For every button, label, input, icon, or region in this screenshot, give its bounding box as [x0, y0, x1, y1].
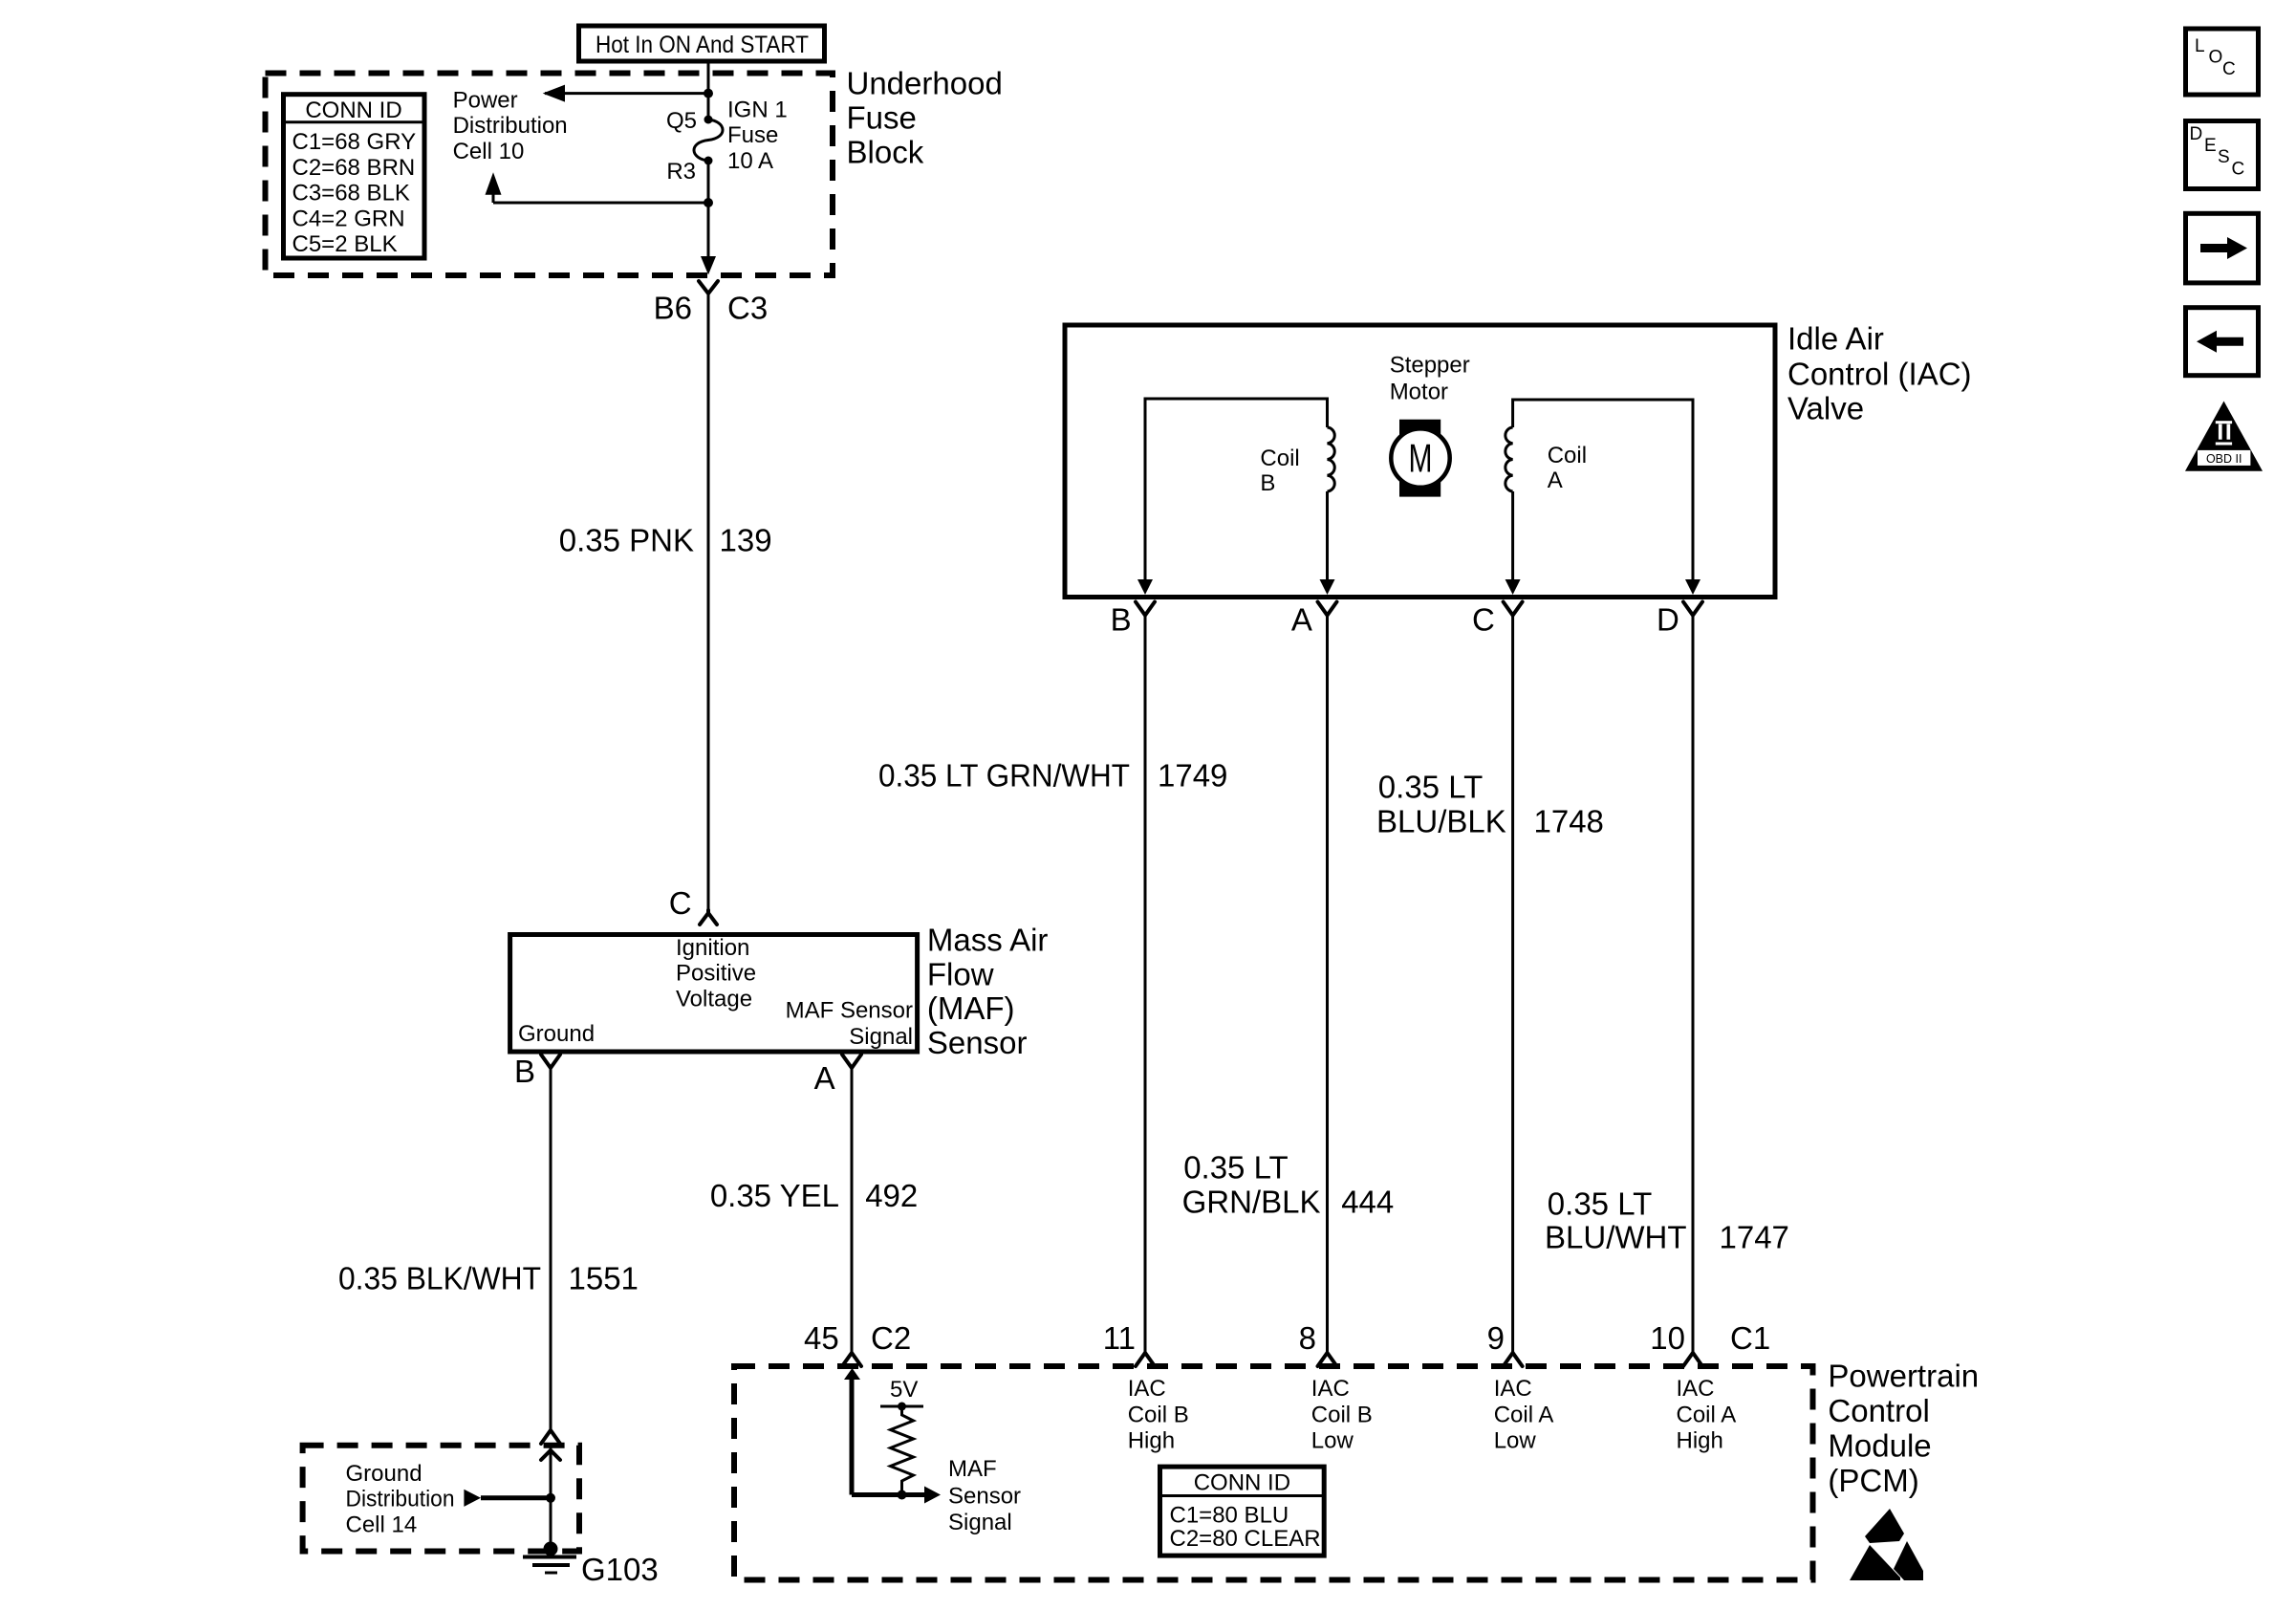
- connector pin 9 at PCM (inverted Y): [1487, 1320, 1523, 1366]
- PCM pin function labels: [1128, 1376, 1737, 1453]
- svg-text:Positive: Positive: [676, 961, 756, 987]
- wire: feed from Hot In box into fuse: [707, 59, 710, 120]
- svg-text:R3: R3: [666, 159, 696, 185]
- junction: [546, 1493, 555, 1503]
- svg-text:Powertrain: Powertrain: [1828, 1359, 1979, 1394]
- connector A at MAF (Y symbol): [814, 1055, 861, 1096]
- svg-text:A: A: [1291, 602, 1312, 638]
- label: 0.35 LT GRN/WHT 1749: [878, 758, 1227, 794]
- svg-text:IAC: IAC: [1311, 1376, 1350, 1402]
- svg-text:0.35 BLK/WHT: 0.35 BLK/WHT: [338, 1260, 541, 1295]
- label: Idle Air Control (IAC) Valve: [1787, 321, 1972, 426]
- svg-text:1551: 1551: [569, 1260, 639, 1295]
- arrowhead from ground distribution (right): [464, 1490, 481, 1507]
- svg-text:Underhood: Underhood: [847, 66, 1003, 101]
- svg-text:CONN ID: CONN ID: [1194, 1470, 1290, 1496]
- label: 0.35 LT BLU/WHT 1747: [1545, 1186, 1789, 1254]
- svg-text:C1=80 BLU: C1=80 BLU: [1170, 1502, 1289, 1528]
- svg-text:C: C: [2222, 59, 2236, 79]
- svg-text:Block: Block: [847, 135, 924, 170]
- svg-text:0.35 LT: 0.35 LT: [1183, 1150, 1288, 1186]
- svg-text:Control: Control: [1828, 1393, 1929, 1428]
- svg-text:Voltage: Voltage: [676, 986, 752, 1012]
- svg-text:1749: 1749: [1158, 758, 1227, 794]
- svg-text:0.35 LT GRN/WHT: 0.35 LT GRN/WHT: [878, 758, 1130, 794]
- label: 0.35 YEL 492: [710, 1178, 918, 1213]
- label: 0.35 BLK/WHT 1551: [338, 1260, 639, 1295]
- wire 1748 LT BLU/BLK: IAC C to PCM 9: [1511, 615, 1514, 1353]
- connector B at IAC (Y symbol): [1111, 602, 1155, 638]
- svg-text:Flow: Flow: [927, 956, 994, 991]
- Mass Air Flow (MAF) sensor box: [510, 935, 918, 1053]
- junction: [704, 198, 713, 207]
- label: MAF Sensor Signal (internal): [948, 1456, 1021, 1535]
- svg-text:IAC: IAC: [1128, 1376, 1166, 1402]
- connector C at MAF (inverted Y): [669, 885, 717, 925]
- svg-text:Ground: Ground: [518, 1021, 595, 1047]
- coil A (inductor): [1505, 400, 1693, 579]
- svg-text:Idle Air: Idle Air: [1787, 321, 1884, 357]
- svg-text:E: E: [2204, 136, 2217, 156]
- connector at ground distribution (inverted Y): [541, 1430, 560, 1444]
- wire 444 LT GRN/BLK: IAC A to PCM 8: [1326, 615, 1329, 1353]
- svg-text:0.35 LT: 0.35 LT: [1548, 1186, 1652, 1221]
- svg-text:1748: 1748: [1534, 804, 1604, 839]
- open arrow up on ground wire: [541, 1450, 560, 1460]
- svg-text:Cell 10: Cell 10: [453, 139, 525, 164]
- right-arrow icon box: [2186, 213, 2259, 283]
- svg-text:B: B: [1111, 602, 1132, 638]
- connector pin 10/C1 at PCM (inverted Y): [1650, 1320, 1770, 1366]
- Powertrain Control Module box (dashed): [734, 1366, 1813, 1580]
- svg-text:Hot In ON And START: Hot In ON And START: [596, 32, 809, 58]
- svg-text:Signal: Signal: [849, 1024, 913, 1050]
- svg-text:B6: B6: [654, 291, 692, 326]
- svg-text:444: 444: [1341, 1185, 1394, 1220]
- svg-text:1747: 1747: [1720, 1220, 1789, 1255]
- MAF signal internal wire with up arrow: [844, 1368, 924, 1495]
- connector D at IAC (Y symbol): [1657, 602, 1702, 638]
- svg-text:C2: C2: [871, 1320, 911, 1356]
- svg-text:139: 139: [720, 523, 772, 558]
- label: 0.35 LT BLU/BLK 1748: [1376, 770, 1604, 839]
- DESC icon box: [2186, 121, 2259, 189]
- svg-text:C5=2 BLK: C5=2 BLK: [292, 231, 398, 257]
- svg-text:Control (IAC): Control (IAC): [1787, 357, 1972, 392]
- svg-text:Signal: Signal: [948, 1510, 1012, 1535]
- svg-text:D: D: [1657, 602, 1679, 638]
- connector 45/C2 at PCM (inverted Y): [804, 1320, 911, 1366]
- wire inside ground box: [550, 1447, 552, 1549]
- svg-text:0.35 YEL: 0.35 YEL: [710, 1178, 839, 1213]
- svg-text:A: A: [1548, 468, 1563, 493]
- ESD sensitivity symbol: [1850, 1509, 1923, 1580]
- svg-text:MAF: MAF: [948, 1456, 997, 1482]
- svg-text:C1=68 GRY: C1=68 GRY: [292, 129, 417, 155]
- svg-text:5V: 5V: [890, 1377, 918, 1403]
- svg-text:Coil: Coil: [1548, 443, 1587, 468]
- svg-text:Distribution: Distribution: [346, 1486, 455, 1512]
- svg-text:Ignition: Ignition: [676, 935, 749, 961]
- connector C at IAC (Y symbol): [1472, 602, 1523, 638]
- svg-text:MAF Sensor: MAF Sensor: [786, 998, 913, 1024]
- svg-text:Ground: Ground: [346, 1461, 422, 1487]
- svg-text:O: O: [2209, 48, 2223, 68]
- svg-text:BLU/WHT: BLU/WHT: [1545, 1220, 1687, 1255]
- svg-text:G103: G103: [581, 1552, 659, 1587]
- svg-text:Cell 14: Cell 14: [346, 1512, 418, 1537]
- svg-text:B: B: [514, 1054, 535, 1089]
- label: Underhood Fuse Block: [847, 66, 1003, 170]
- wire 1551 BLK/WHT: MAF B to ground: [550, 1068, 552, 1430]
- svg-text:45: 45: [804, 1320, 839, 1356]
- svg-text:Sensor: Sensor: [948, 1484, 1021, 1510]
- svg-text:0.35 PNK: 0.35 PNK: [559, 523, 694, 558]
- label: Powertrain Control Module (PCM): [1828, 1359, 1979, 1498]
- junction at resistor bottom: [898, 1490, 907, 1500]
- connector pin 11 at PCM (inverted Y): [1103, 1320, 1155, 1366]
- svg-text:S: S: [2218, 147, 2230, 167]
- svg-text:Coil: Coil: [1260, 446, 1299, 471]
- svg-text:Distribution: Distribution: [453, 113, 568, 139]
- junction: [704, 89, 713, 98]
- label: 0.35 LT GRN/BLK 444: [1182, 1150, 1395, 1220]
- svg-text:C2=68 BRN: C2=68 BRN: [292, 155, 416, 181]
- svg-text:8: 8: [1299, 1320, 1316, 1356]
- coil A output arrows (down): [1505, 579, 1521, 595]
- svg-text:D: D: [2190, 124, 2203, 144]
- svg-text:Q5: Q5: [666, 108, 697, 134]
- OBD II symbol (triangle): [2185, 402, 2263, 471]
- fuse IGN 1 10A (S-curve symbol): [666, 97, 788, 185]
- svg-text:C1: C1: [1730, 1320, 1770, 1356]
- svg-text:CONN ID: CONN ID: [305, 98, 401, 123]
- svg-text:Module: Module: [1828, 1428, 1931, 1464]
- label: Power Distribution Cell 10: [453, 88, 568, 164]
- pull-up resistor: [891, 1406, 914, 1495]
- svg-text:Mass Air: Mass Air: [927, 923, 1049, 958]
- svg-text:L: L: [2195, 36, 2205, 56]
- coil B (inductor): [1145, 399, 1334, 579]
- svg-text:Fuse: Fuse: [847, 100, 917, 136]
- wire from arrow to junction: [481, 1495, 551, 1500]
- svg-text:Power: Power: [453, 88, 518, 114]
- svg-text:IGN 1: IGN 1: [727, 97, 788, 122]
- arrowhead into fuse block edge (down): [701, 256, 716, 274]
- svg-text:0.35 LT: 0.35 LT: [1378, 770, 1483, 805]
- svg-text:IAC: IAC: [1494, 1376, 1532, 1402]
- connector B at MAF (Y symbol): [514, 1054, 560, 1089]
- coil B output arrows (down): [1137, 579, 1153, 595]
- LOC icon box: [2186, 29, 2259, 95]
- svg-text:Low: Low: [1494, 1427, 1537, 1453]
- svg-text:Valve: Valve: [1787, 391, 1864, 426]
- svg-text:(MAF): (MAF): [927, 990, 1015, 1026]
- svg-text:C: C: [669, 885, 692, 921]
- svg-text:Coil B: Coil B: [1311, 1402, 1373, 1427]
- connector B6 / C3 (Y symbol): [654, 281, 769, 326]
- wire 1749 LT GRN/WHT: IAC B to PCM 11: [1144, 615, 1147, 1353]
- wire 139 PNK: B6 down to MAF C: [707, 294, 710, 910]
- label: Stepper Motor: [1390, 352, 1470, 404]
- svg-text:Stepper: Stepper: [1390, 352, 1470, 378]
- label: Ground Distribution Cell 14: [346, 1461, 455, 1537]
- power source label box "Hot In ON And START": [579, 26, 825, 61]
- svg-text:10 A: 10 A: [727, 148, 773, 174]
- svg-text:OBD II: OBD II: [2206, 452, 2242, 466]
- svg-text:Fuse: Fuse: [727, 122, 778, 148]
- Idle Air Control (IAC) valve box: [1065, 325, 1775, 598]
- CONN ID table (fuse block): [284, 95, 425, 258]
- svg-text:High: High: [1128, 1427, 1175, 1453]
- svg-text:11: 11: [1103, 1320, 1136, 1356]
- ground G103 symbol: [523, 1542, 659, 1588]
- arrowhead pointing left (to Power Distribution): [543, 85, 565, 102]
- svg-text:High: High: [1677, 1427, 1723, 1453]
- stepper motor M symbol: [1391, 420, 1449, 497]
- svg-text:GRN/BLK: GRN/BLK: [1182, 1185, 1321, 1220]
- wire: branch to power distribution (lower): [493, 202, 708, 205]
- svg-text:IAC: IAC: [1677, 1376, 1715, 1402]
- label: 0.35 PNK 139: [559, 523, 772, 558]
- svg-text:Coil A: Coil A: [1494, 1402, 1554, 1427]
- connector pin 8 at PCM (inverted Y): [1299, 1320, 1337, 1366]
- wire 1747 LT BLU/WHT: IAC D to PCM 10: [1692, 615, 1695, 1353]
- 5V supply bar: [880, 1377, 923, 1410]
- svg-text:9: 9: [1487, 1320, 1505, 1356]
- svg-text:Sensor: Sensor: [927, 1025, 1028, 1060]
- svg-text:A: A: [814, 1060, 835, 1096]
- svg-text:Motor: Motor: [1390, 379, 1448, 404]
- svg-text:(PCM): (PCM): [1828, 1463, 1918, 1498]
- svg-text:C3: C3: [727, 291, 768, 326]
- svg-text:BLU/BLK: BLU/BLK: [1376, 804, 1506, 839]
- CONN ID table (PCM): [1160, 1467, 1325, 1556]
- svg-text:492: 492: [865, 1178, 918, 1213]
- MAF internal labels: [518, 935, 913, 1050]
- svg-text:10: 10: [1650, 1320, 1685, 1356]
- left-arrow icon box: [2186, 308, 2259, 376]
- underhood fuse block box (dashed): [266, 74, 834, 276]
- wire: branch to power distribution (upper): [545, 92, 708, 95]
- svg-text:B: B: [1260, 470, 1275, 496]
- svg-text:Coil B: Coil B: [1128, 1402, 1189, 1427]
- svg-text:C4=2 GRN: C4=2 GRN: [292, 206, 405, 231]
- ground distribution box (dashed): [303, 1446, 579, 1552]
- svg-text:Coil A: Coil A: [1677, 1402, 1737, 1427]
- label: Mass Air Flow (MAF) Sensor: [927, 923, 1049, 1060]
- connector A at IAC (Y symbol): [1291, 602, 1337, 638]
- svg-text:C: C: [2232, 160, 2245, 180]
- wire 492 YEL: MAF A to PCM 45: [851, 1068, 854, 1353]
- arrowhead pointing up: [486, 172, 502, 195]
- svg-text:C3=68 BLK: C3=68 BLK: [292, 181, 410, 207]
- wire: fuse output down: [707, 161, 710, 272]
- arrowhead to MAF Sensor Signal (right): [924, 1487, 941, 1504]
- svg-text:M: M: [1409, 436, 1433, 481]
- svg-text:C: C: [1472, 602, 1495, 638]
- svg-text:C2=80 CLEAR: C2=80 CLEAR: [1170, 1526, 1321, 1552]
- svg-text:Low: Low: [1311, 1427, 1354, 1453]
